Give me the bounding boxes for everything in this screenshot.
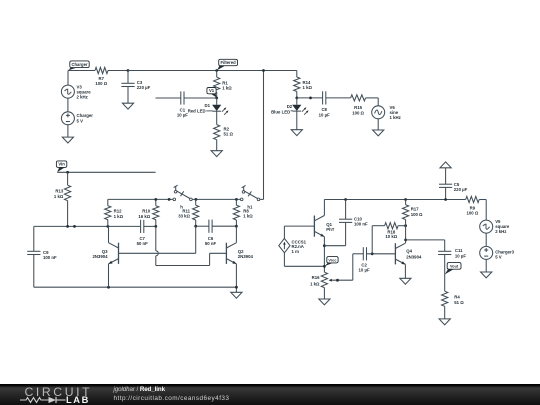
svg-text:100 Ω: 100 Ω (411, 212, 423, 217)
wire (404, 264, 406, 278)
byline jgoldhar / Red_link (114, 386, 165, 393)
wire (296, 98, 298, 105)
wire (184, 97, 217, 99)
wire (235, 264, 237, 292)
wire (296, 111, 298, 130)
node junction (235, 198, 238, 201)
wire Filtered rail (128, 70, 297, 72)
capacitor C9 (27, 250, 57, 260)
wire (144, 225, 156, 227)
svg-text:10 µF: 10 µF (319, 112, 330, 117)
node junction (127, 69, 130, 72)
wire (398, 225, 406, 227)
wire (67, 98, 69, 112)
resistor R12 (105, 206, 124, 220)
wire (33, 226, 35, 251)
svg-text:50 nF: 50 nF (137, 241, 149, 246)
wire C1 stub (156, 97, 181, 99)
capacitor C1 (177, 91, 188, 117)
wire (479, 200, 486, 221)
svg-text:50 nF: 50 nF (205, 241, 217, 246)
voltage source V5 (480, 219, 510, 234)
wire (67, 201, 69, 227)
svg-text:5 V: 5 V (77, 118, 84, 123)
wire (108, 226, 110, 242)
node junction (66, 171, 69, 174)
wire (33, 255, 35, 288)
wire (323, 200, 325, 216)
wire cross-couple with hop (156, 226, 227, 265)
wire (296, 92, 298, 98)
wire (127, 71, 129, 84)
svg-text:1 kΩ: 1 kΩ (114, 214, 124, 219)
wire (107, 199, 109, 205)
wire (155, 220, 157, 227)
svg-text:100 Ω: 100 Ω (466, 210, 478, 215)
voltage source Charger 5V (61, 112, 93, 125)
wire (216, 98, 218, 105)
wire (108, 70, 128, 72)
wire (485, 259, 487, 272)
voltage source V6 (372, 105, 401, 120)
capacitor C7 (137, 220, 149, 246)
node junction (295, 97, 298, 100)
svg-text:2N3904: 2N3904 (238, 254, 254, 259)
capacitor C11 (438, 248, 466, 258)
svg-text:1 kΩ: 1 kΩ (222, 86, 232, 91)
wire (127, 87, 129, 104)
svg-text:1 kΩ: 1 kΩ (243, 214, 253, 219)
svg-text:1 kΩ: 1 kΩ (303, 85, 313, 90)
wire (345, 200, 347, 220)
node flag Vin (56, 161, 66, 172)
svg-text:16 kΩ: 16 kΩ (138, 214, 150, 219)
voltage source V3 (61, 84, 91, 99)
wire (372, 226, 384, 254)
transistor Q3 (92, 243, 118, 264)
node junction (404, 239, 407, 242)
node junction (323, 265, 326, 268)
wire (260, 71, 264, 200)
wire (67, 125, 69, 137)
node junction (194, 225, 197, 228)
svg-text:100 nF: 100 nF (354, 222, 368, 227)
ground (231, 292, 242, 298)
wire (323, 266, 325, 272)
wire Vin rail (57, 171, 155, 173)
switch h1 (240, 185, 259, 209)
CircuitLab logo CIRCUIT (25, 385, 93, 399)
svg-text:2N3904: 2N3904 (92, 254, 108, 259)
capacitor C10 (339, 216, 368, 226)
svg-text:10 µF: 10 µF (359, 268, 370, 273)
capacitor C5 (439, 182, 468, 192)
wire (485, 233, 487, 246)
node flag Filtered (217, 59, 238, 70)
transistor Q2 (226, 243, 253, 264)
wire (405, 200, 407, 205)
svg-text:5 V: 5 V (495, 254, 502, 259)
node junction (371, 252, 374, 255)
svg-text:51 Ω: 51 Ω (224, 132, 234, 137)
node flag Charger (68, 61, 89, 71)
node junction (154, 225, 157, 228)
svg-text:Filtered: Filtered (221, 60, 237, 65)
ground (400, 278, 411, 284)
resistor R1 (214, 77, 233, 92)
svg-text:100 Ω: 100 Ω (95, 81, 107, 86)
ground (319, 299, 330, 305)
wire wiper (353, 254, 364, 280)
ground (62, 137, 73, 143)
capacitor C6 (205, 220, 217, 246)
resistor R18 (385, 223, 399, 240)
CircuitLab logo circuit glyph (20, 395, 70, 405)
wire (67, 172, 69, 185)
svg-text:Vrec: Vrec (328, 258, 336, 262)
svg-text:Blue LED: Blue LED (271, 109, 290, 114)
node flag Vrec (325, 257, 338, 267)
wire bottom rail (34, 286, 237, 288)
node junction (154, 198, 157, 201)
svg-text:10 µF: 10 µF (177, 113, 188, 118)
wire (323, 288, 325, 299)
node flag Vout (445, 263, 461, 275)
node junction (195, 198, 198, 201)
capacitor C3 (121, 80, 150, 90)
wire (284, 253, 324, 266)
resistor R13 (54, 185, 71, 200)
node junction (168, 198, 171, 201)
svg-text:220 µF: 220 µF (137, 85, 151, 90)
resistor R8 (233, 205, 253, 220)
wire (405, 220, 407, 244)
wire (68, 70, 95, 72)
node junction (404, 224, 407, 227)
svg-text:h1: h1 (247, 205, 253, 210)
transistor Q1 PhT (314, 216, 334, 237)
svg-text:220 µF: 220 µF (454, 187, 468, 192)
switch h (173, 185, 192, 209)
ground (122, 103, 133, 109)
node junction (323, 244, 326, 247)
svg-text:33 kΩ: 33 kΩ (178, 214, 190, 219)
wire (326, 97, 351, 99)
svg-text:2 kHz: 2 kHz (77, 94, 88, 99)
url (114, 395, 230, 402)
node junction (73, 225, 76, 228)
node junction (106, 225, 109, 228)
wire (444, 255, 446, 292)
ground (481, 272, 492, 278)
voltage source Charger3 5V (480, 246, 515, 259)
svg-text:Vout: Vout (450, 264, 459, 268)
wire (155, 199, 157, 205)
wire (406, 240, 445, 251)
wire Q1 base (284, 225, 314, 227)
transistor Q4 (395, 243, 422, 264)
wire (195, 199, 197, 205)
wire (377, 119, 379, 130)
node junction (444, 198, 447, 201)
wire (216, 140, 218, 151)
svg-text:100 nF: 100 nF (43, 255, 57, 260)
node junction (66, 225, 69, 228)
svg-text:Vin: Vin (58, 162, 65, 167)
resistor R14 (294, 77, 313, 92)
node junction (215, 97, 218, 100)
wire (107, 220, 109, 227)
wire (367, 253, 396, 255)
wire rail (192, 198, 240, 200)
svg-text:1 kΩ: 1 kΩ (54, 194, 64, 199)
potentiometer R16 (310, 272, 353, 287)
current source CCCS1 (279, 238, 307, 254)
svg-text:V1: V1 (209, 88, 215, 93)
CircuitLab logo LAB (66, 395, 90, 405)
diode D1 red LED (188, 103, 229, 115)
svg-text:1 kΩ: 1 kΩ (310, 281, 320, 286)
ground (291, 130, 302, 136)
footer bar (0, 384, 540, 405)
resistor R11 (178, 205, 199, 220)
node junction (107, 286, 110, 289)
resistor R7 (95, 67, 108, 86)
wire (235, 220, 237, 226)
wire (297, 97, 323, 99)
wire (445, 168, 447, 184)
wire (444, 306, 446, 319)
node junction (404, 198, 407, 201)
ground (373, 130, 384, 136)
svg-text:1 kHz: 1 kHz (390, 115, 401, 120)
svg-text:Charger: Charger (71, 62, 87, 67)
wire (216, 92, 218, 98)
svg-text:10 µF: 10 µF (455, 253, 466, 258)
wire rail (108, 198, 173, 200)
node junction (336, 279, 339, 282)
wire (212, 225, 236, 227)
wire (67, 71, 69, 86)
svg-text:2N3904: 2N3904 (406, 255, 422, 260)
svg-text:Q4: Q4 (406, 249, 412, 254)
ground (211, 151, 222, 157)
node junction (215, 69, 218, 72)
resistor R9 (466, 196, 480, 215)
node junction (309, 97, 312, 100)
wire rail (196, 225, 209, 227)
wire (195, 220, 197, 226)
svg-text:1 m: 1 m (292, 249, 300, 254)
power flag inverted ground (440, 162, 451, 168)
wire (216, 71, 218, 78)
wire (296, 71, 298, 78)
svg-text:100 Ω: 100 Ω (352, 110, 364, 115)
wire (323, 237, 325, 267)
node junction (344, 198, 347, 201)
node flag V1 (207, 88, 217, 98)
wire (445, 187, 447, 199)
capacitor C8 (319, 91, 330, 117)
resistor R17 (403, 205, 424, 220)
svg-text:Red LED: Red LED (188, 108, 206, 113)
wire (324, 222, 345, 245)
diode D2 blue LED (271, 104, 309, 115)
wire (366, 98, 379, 106)
wire (283, 226, 285, 238)
resistor R15 (351, 95, 366, 116)
wire rail (34, 225, 141, 227)
svg-text:2 kHz: 2 kHz (495, 229, 506, 234)
wire Q3 base (119, 226, 196, 253)
node junction (235, 225, 238, 228)
wire (235, 199, 237, 205)
svg-text:R16: R16 (312, 275, 320, 280)
node junction (235, 286, 238, 289)
wire (108, 264, 110, 287)
svg-text:PhT: PhT (326, 227, 334, 232)
resistor R4 (442, 291, 465, 306)
capacitor C2 (359, 247, 370, 272)
resistor R2 (214, 125, 234, 140)
wire rail (324, 199, 465, 201)
svg-text:51 Ω: 51 Ω (454, 300, 464, 305)
resistor R10 (138, 206, 159, 220)
wire (216, 111, 218, 124)
ground (439, 319, 450, 325)
node junction (262, 69, 265, 72)
svg-text:10 kΩ: 10 kΩ (385, 234, 397, 239)
wire (235, 226, 237, 243)
